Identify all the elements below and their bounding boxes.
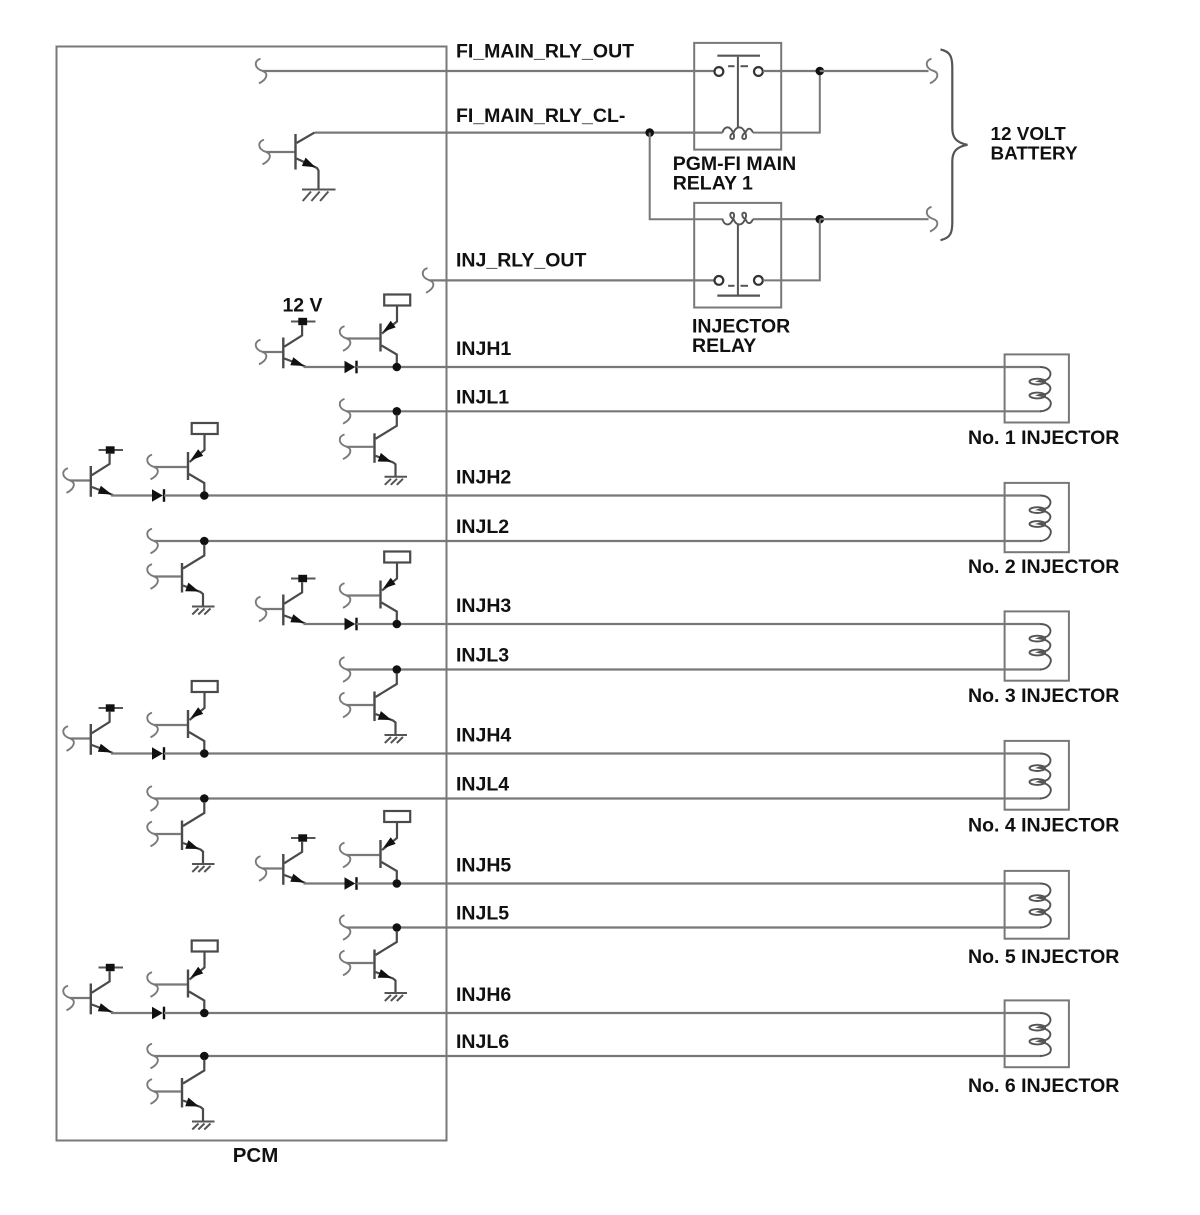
wire Q1A emitter to diode D1 — [304, 366, 345, 368]
transistor Q4C collector from INJL4 — [183, 802, 204, 826]
svg-text:INJL6: INJL6 — [456, 1031, 509, 1053]
wire-break at INJL2 start — [147, 529, 158, 554]
transistor Q6C emitter — [183, 1101, 203, 1122]
relay K1 contact circle right — [754, 67, 763, 76]
transistor Q1C collector from INJL1 — [376, 415, 397, 439]
node INJH3 junction — [393, 620, 402, 629]
label RELAY — [692, 335, 756, 357]
transistor Q4C emitter arrow — [185, 840, 199, 849]
transistor Q5A collector to 12V — [284, 842, 302, 864]
transistor Q2C emitter arrow — [185, 583, 199, 592]
net label INJL3 — [456, 645, 509, 667]
wire-break at Q2A base — [63, 468, 74, 493]
svg-text:12 V: 12 V — [282, 294, 322, 316]
injector box No.2 — [1005, 483, 1069, 552]
label INJECTOR — [692, 316, 790, 338]
net label INJL2 — [456, 516, 509, 538]
transistor Q1B base bar — [379, 324, 381, 352]
wire K2 contact up to battery node — [763, 219, 820, 280]
transistor Q1B emitter from resistor R1 — [382, 306, 397, 334]
wire INJH5 (diode to injector) — [357, 882, 1041, 884]
wire battery feed A — [820, 70, 929, 72]
svg-text:FI_MAIN_RLY_OUT: FI_MAIN_RLY_OUT — [456, 41, 634, 63]
transistor Q4B base bar — [187, 710, 189, 738]
label No. 3 INJECTOR — [968, 685, 1119, 707]
injector coil No.4 — [1030, 754, 1051, 799]
transistor Q3A base bar — [282, 595, 284, 626]
wire Q1B base — [347, 337, 380, 339]
label RELAY 1 — [673, 172, 753, 194]
diode D3 — [345, 618, 357, 631]
transistor Q2C base bar — [181, 563, 183, 593]
transistor Q2B emitter arrow (PNP) — [191, 449, 204, 460]
wire INJL2 — [154, 540, 1041, 542]
wire Q6C base — [154, 1090, 181, 1092]
svg-text:INJH2: INJH2 — [456, 467, 511, 489]
transistor Q2A emitter arrow — [98, 486, 112, 495]
wire INJH2 (diode to injector) — [164, 494, 1040, 496]
transistor Q4A emitter — [92, 745, 113, 753]
diode D1 — [345, 361, 357, 374]
resistor R3 — [384, 552, 410, 563]
wire-break at Q5C base — [340, 951, 351, 976]
transistor Q1B emitter arrow (PNP) — [383, 321, 396, 332]
wire INJL5 — [347, 926, 1042, 928]
wire Q4A emitter to diode D4 — [111, 752, 152, 754]
node INJL2 junction — [200, 537, 209, 546]
transistor Q4C base bar — [181, 821, 183, 851]
wire-break at Q4C base — [147, 822, 158, 847]
transistor Q6B emitter arrow (PNP) — [191, 967, 204, 978]
wire-break at Q5A base — [256, 856, 267, 881]
label BATTERY — [991, 144, 1079, 165]
svg-text:12 VOLT: 12 VOLT — [991, 124, 1067, 145]
wire K1 coil to battery node — [753, 71, 820, 133]
svg-text:No. 2 INJECTOR: No. 2 INJECTOR — [968, 556, 1119, 578]
wire INJL1 — [347, 410, 1042, 412]
transistor Q2C collector from INJL2 — [183, 545, 204, 569]
transistor Q3C base bar — [373, 692, 375, 722]
transistor Q3C emitter arrow — [378, 711, 392, 720]
label No. 1 INJECTOR — [968, 427, 1119, 449]
node INJL3 junction — [393, 665, 402, 674]
node INJH6 junction — [200, 1009, 209, 1018]
wire-break at Q2C base — [147, 564, 158, 589]
transistor Q1 emitter arrow — [302, 158, 316, 168]
relay K2 armature stem — [737, 225, 739, 295]
wire battery feed B — [820, 218, 929, 220]
transistor Q6B collector — [189, 992, 204, 1010]
diode D5 — [345, 877, 357, 890]
wire Q6A emitter to diode D6 — [111, 1012, 152, 1014]
PCM box outline — [57, 47, 447, 1141]
wire junction down to injector relay coil — [650, 133, 724, 220]
net label INJH1 — [456, 338, 511, 360]
svg-text:No. 6 INJECTOR: No. 6 INJECTOR — [968, 1075, 1119, 1097]
net label INJL4 — [456, 774, 509, 796]
svg-text:BATTERY: BATTERY — [991, 144, 1079, 165]
node INJL1 junction — [393, 407, 402, 416]
relay K1 armature bar — [717, 55, 760, 57]
wire Q6A base — [70, 997, 90, 999]
wire Q2A base — [70, 479, 90, 481]
relay K2 contact dash 1 — [728, 285, 734, 287]
resistor R1 — [384, 295, 410, 306]
transistor Q1 emitter — [297, 159, 319, 190]
transistor Q6C collector from INJL6 — [183, 1060, 204, 1084]
transistor Q3B emitter arrow (PNP) — [383, 578, 396, 589]
relay K1 contact circle left — [715, 67, 724, 76]
relay K2 box (INJECTOR RELAY) — [694, 203, 781, 308]
transistor Q1B collector — [382, 346, 397, 364]
svg-text:RELAY: RELAY — [692, 335, 756, 357]
transistor Q3C emitter — [376, 714, 396, 735]
net label INJ_RLY_OUT — [456, 250, 586, 272]
relay K1 contact dash 2 — [741, 65, 749, 67]
diode D6 — [152, 1007, 164, 1020]
net label INJL5 — [456, 903, 509, 925]
node INJH2 junction — [200, 491, 209, 500]
wire-break at Q6B base — [147, 972, 158, 997]
injector box No.3 — [1005, 611, 1069, 680]
transistor Q1A base bar — [282, 338, 284, 369]
svg-text:INJL4: INJL4 — [456, 774, 509, 796]
wire-break at Q1C base — [340, 434, 351, 459]
wire-break at FI_MAIN_RLY_OUT start — [256, 59, 267, 84]
transistor Q5B emitter from resistor R5 — [382, 822, 397, 850]
wire-break at Q3C base — [340, 693, 351, 718]
net label INJH5 — [456, 855, 511, 877]
transistor Q6C base bar — [181, 1078, 183, 1108]
transistor Q3B base bar — [379, 581, 381, 609]
transistor Q2A emitter — [92, 487, 113, 495]
transistor Q5A base bar — [282, 854, 284, 885]
transistor Q4A collector to 12V — [92, 712, 110, 734]
ground (Q1C emitter) — [385, 477, 408, 485]
injector coil No.5 — [1030, 884, 1051, 928]
transistor Q3B collector — [382, 603, 397, 621]
wire K1 contact to battery node — [763, 70, 820, 72]
wire Q3A emitter to diode D3 — [304, 623, 345, 625]
wire-break at INJL4 start — [147, 786, 158, 811]
wire INJH1 (diode to injector) — [357, 366, 1041, 368]
svg-text:No. 1 INJECTOR: No. 1 INJECTOR — [968, 427, 1119, 449]
transistor Q4A emitter arrow — [98, 744, 112, 753]
transistor Q6A collector to 12V — [92, 971, 110, 993]
svg-text:INJL5: INJL5 — [456, 903, 509, 925]
ground (Q3C emitter) — [385, 735, 408, 743]
transistor Q6B emitter from resistor R6 — [190, 952, 205, 980]
transistor Q5C base bar — [373, 950, 375, 980]
net label INJH6 — [456, 984, 511, 1006]
svg-text:No. 5 INJECTOR: No. 5 INJECTOR — [968, 946, 1119, 968]
transistor Q3A emitter — [284, 616, 305, 624]
wire Q5A emitter to diode D5 — [304, 882, 345, 884]
wire INJL4 — [154, 797, 1041, 799]
transistor Q3A collector to 12V — [284, 582, 302, 604]
ground (Q5C emitter) — [385, 993, 408, 1001]
svg-text:INJL3: INJL3 — [456, 645, 509, 667]
label No. 4 INJECTOR — [968, 815, 1119, 837]
net label FI_MAIN_RLY_CL- — [456, 105, 625, 127]
12V supply rail (channel 6) — [99, 964, 124, 971]
transistor Q2B emitter from resistor R2 — [190, 434, 205, 462]
injector box No.1 — [1005, 354, 1069, 422]
svg-text:INJL2: INJL2 — [456, 516, 509, 538]
wire Q4B base — [154, 724, 187, 726]
wire-break at Q1A base — [256, 340, 267, 365]
wire FI_MAIN_RLY_CL- (Q1 collector to relay coil) — [315, 132, 723, 134]
diode D2 — [152, 489, 164, 502]
12V supply rail (channel 2) — [99, 446, 124, 453]
transistor Q2A base bar — [90, 466, 92, 497]
transistor Q3B emitter from resistor R3 — [382, 563, 397, 591]
wire-break at Q2B base — [147, 455, 158, 480]
wire INJ_RLY_OUT (to injector relay contact) — [430, 279, 715, 281]
transistor Q5A emitter — [284, 875, 305, 883]
transistor Q1C base bar — [373, 433, 375, 463]
net label INJL6 — [456, 1031, 509, 1053]
transistor Q1A emitter — [284, 359, 305, 367]
svg-text:INJ_RLY_OUT: INJ_RLY_OUT — [456, 250, 586, 272]
wire-break at INJL6 start — [147, 1044, 158, 1069]
wire Q3B base — [347, 594, 380, 596]
injector box No.5 — [1005, 871, 1069, 939]
node INJH1 junction — [393, 363, 402, 372]
label PCM — [233, 1144, 279, 1167]
diode D4 — [152, 747, 164, 760]
transistor Q2B base bar — [187, 452, 189, 480]
transistor Q4B collector — [189, 732, 204, 750]
12V supply rail (channel 3) — [291, 575, 316, 582]
12V supply rail (channel 4) — [99, 704, 124, 711]
node junction on FI_MAIN_RLY_CL- — [645, 128, 654, 137]
label 12 V — [282, 294, 322, 316]
wire Q2B base — [154, 466, 187, 468]
transistor Q6A emitter — [92, 1005, 113, 1013]
resistor R4 — [192, 681, 218, 692]
wire-break at Q1 base input — [259, 140, 270, 165]
wire Q6B base — [154, 983, 187, 985]
wire-break at Q1B base — [340, 326, 351, 351]
wire-break at INJ_RLY_OUT start — [423, 268, 434, 293]
ground (Q2C emitter) — [192, 607, 215, 615]
label No. 2 INJECTOR — [968, 556, 1119, 578]
net label INJH2 — [456, 467, 511, 489]
wire Q5B base — [347, 854, 380, 856]
wire Q2A emitter to diode D2 — [111, 494, 152, 496]
svg-text:INJH4: INJH4 — [456, 725, 511, 747]
injector coil No.1 — [1030, 367, 1051, 411]
wire K2 coil to battery node — [753, 218, 820, 220]
relay K1 armature stem — [737, 57, 739, 128]
wire-break at Q6C base — [147, 1079, 158, 1104]
wire Q5C base — [347, 962, 374, 964]
transistor Q5A emitter arrow — [290, 874, 304, 883]
wire FI_MAIN_RLY_OUT (PCM to relay contact) — [263, 70, 715, 72]
wire Q1C base — [347, 446, 374, 448]
12V supply rail (channel 5) — [291, 834, 316, 841]
wire Q4C base — [154, 833, 181, 835]
wire INJH4 (diode to injector) — [164, 752, 1040, 754]
injector coil No.3 — [1030, 624, 1051, 670]
relay K2 contact circle left — [715, 276, 724, 285]
transistor Q5C emitter arrow — [378, 969, 392, 978]
wire Q5A base — [263, 867, 283, 869]
wire-break at Q5B base — [340, 843, 351, 868]
transistor Q4C emitter — [183, 843, 203, 864]
relay K1 contact dash 1 — [728, 65, 734, 67]
wire INJL6 — [154, 1055, 1041, 1057]
relay K1 box (PGM-FI MAIN RELAY 1) — [694, 43, 781, 150]
transistor Q3A emitter arrow — [290, 614, 304, 623]
relay K2 contact circle right — [754, 276, 763, 285]
transistor Q1C emitter arrow — [378, 453, 392, 462]
svg-text:FI_MAIN_RLY_CL-: FI_MAIN_RLY_CL- — [456, 105, 625, 127]
transistor Q6C emitter arrow — [185, 1098, 199, 1107]
transistor Q5B emitter arrow (PNP) — [383, 837, 396, 848]
transistor Q5B base bar — [379, 840, 381, 868]
transistor Q4B emitter arrow (PNP) — [191, 707, 204, 718]
transistor Q2C emitter — [183, 586, 203, 607]
wire INJH6 (diode to injector) — [164, 1012, 1040, 1014]
transistor Q4A base bar — [90, 724, 92, 755]
net label FI_MAIN_RLY_OUT — [456, 41, 634, 63]
svg-text:PCM: PCM — [233, 1144, 279, 1167]
resistor R5 — [384, 811, 410, 822]
node INJL5 junction — [393, 923, 402, 932]
svg-text:No. 3 INJECTOR: No. 3 INJECTOR — [968, 685, 1119, 707]
svg-text:INJH6: INJH6 — [456, 984, 511, 1006]
svg-text:No. 4 INJECTOR: No. 4 INJECTOR — [968, 815, 1119, 837]
net label INJH3 — [456, 595, 511, 617]
label PGM-FI MAIN — [673, 153, 796, 175]
transistor Q1 collector — [297, 133, 315, 143]
12V supply rail (channel 1) — [291, 318, 316, 325]
transistor Q1C emitter — [376, 456, 396, 477]
wire INJL3 — [347, 668, 1042, 670]
injector box No.6 — [1005, 1000, 1069, 1067]
wire-break at Q4A base — [63, 726, 74, 751]
transistor Q5B collector — [382, 862, 397, 880]
resistor R6 — [192, 941, 218, 952]
wire-break at INJL5 start — [340, 915, 351, 940]
wire-break at battery feed B — [927, 207, 938, 232]
wire-break at Q3B base — [340, 583, 351, 608]
wire-break at Q4B base — [147, 713, 158, 738]
injector coil No.6 — [1030, 1013, 1051, 1056]
node battery feed A — [816, 67, 825, 76]
wire Q3A base — [263, 608, 283, 610]
node INJL4 junction — [200, 794, 209, 803]
transistor Q5C collector from INJL5 — [376, 931, 397, 955]
svg-text:INJL1: INJL1 — [456, 386, 509, 408]
wire-break at battery feed A — [927, 59, 938, 84]
svg-text:INJH3: INJH3 — [456, 595, 511, 617]
net label INJL1 — [456, 386, 509, 408]
wire-break at INJL3 start — [340, 657, 351, 682]
wire Q1A base — [263, 351, 283, 353]
svg-text:INJH5: INJH5 — [456, 855, 511, 877]
transistor Q4B emitter from resistor R4 — [190, 692, 205, 720]
label No. 5 INJECTOR — [968, 946, 1119, 968]
wire Q2C base — [154, 575, 181, 577]
node battery feed B — [816, 215, 825, 224]
net label INJH4 — [456, 725, 511, 747]
wire-break at INJL1 start — [340, 399, 351, 424]
transistor Q3C collector from INJL3 — [376, 673, 397, 697]
relay K1 coil — [723, 127, 754, 139]
svg-text:RELAY 1: RELAY 1 — [673, 172, 753, 194]
label 12 VOLT — [991, 124, 1067, 145]
ground (Q6C emitter) — [192, 1122, 215, 1130]
transistor Q5C emitter — [376, 972, 396, 993]
relay K2 contact dash 2 — [741, 285, 749, 287]
ground (Q4C emitter) — [192, 864, 215, 872]
label No. 6 INJECTOR — [968, 1075, 1119, 1097]
transistor Q6B base bar — [187, 970, 189, 998]
transistor Q6A emitter arrow — [98, 1003, 112, 1012]
wire Q1 base — [266, 151, 294, 153]
transistor Q2A collector to 12V — [92, 454, 110, 476]
relay K2 coil — [723, 213, 754, 225]
wire-break at Q3A base — [256, 597, 267, 622]
injector box No.4 — [1005, 741, 1069, 810]
node INJH5 junction — [393, 879, 402, 888]
battery brace — [941, 50, 968, 241]
relay K2 armature bar — [717, 295, 760, 297]
wire Q4A base — [70, 737, 90, 739]
svg-text:INJH1: INJH1 — [456, 338, 511, 360]
node INJH4 junction — [200, 749, 209, 758]
injector coil No.2 — [1030, 496, 1051, 542]
resistor R2 — [192, 423, 218, 434]
ground (Q1 emitter) — [302, 190, 336, 202]
node INJL6 junction — [200, 1052, 209, 1061]
transistor Q1 base bar — [294, 134, 296, 170]
wire-break at Q6A base — [63, 986, 74, 1011]
transistor Q1A emitter arrow — [290, 357, 304, 366]
transistor Q1A collector to 12V — [284, 325, 302, 347]
transistor Q2B collector — [189, 474, 204, 492]
wire INJH3 (diode to injector) — [357, 623, 1041, 625]
transistor Q6A base bar — [90, 984, 92, 1015]
wire Q3C base — [347, 704, 374, 706]
